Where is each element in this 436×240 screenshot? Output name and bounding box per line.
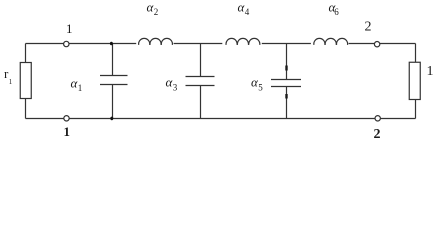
svg-text:1: 1 (427, 64, 434, 79)
svg-text:2: 2 (365, 20, 372, 35)
svg-text:2: 2 (154, 7, 159, 17)
svg-text:1: 1 (64, 124, 71, 139)
svg-text:6: 6 (334, 7, 339, 17)
svg-text:1: 1 (78, 83, 83, 93)
svg-text:5: 5 (258, 83, 263, 93)
svg-text:1: 1 (66, 21, 73, 36)
svg-text:2: 2 (374, 127, 381, 142)
svg-text:1: 1 (9, 78, 13, 86)
svg-text:3: 3 (173, 83, 178, 93)
svg-text:4: 4 (245, 7, 250, 17)
